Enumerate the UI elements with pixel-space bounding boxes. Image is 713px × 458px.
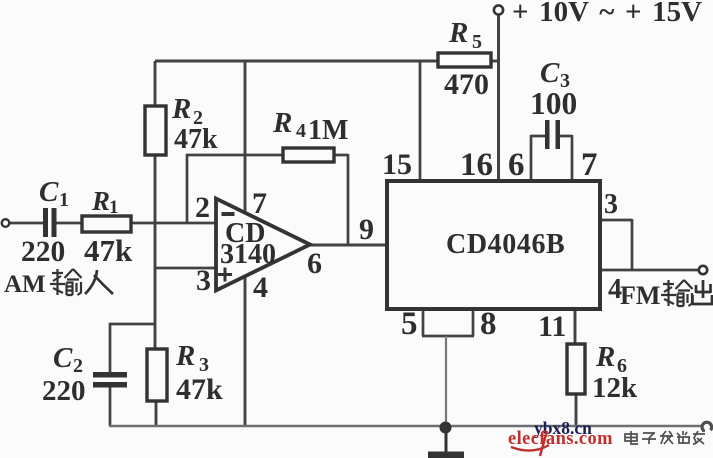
label AM input <box>4 271 46 298</box>
label R2 <box>171 93 203 129</box>
input terminal <box>2 219 10 227</box>
svg-text:7: 7 <box>252 187 267 220</box>
svg-text:2: 2 <box>195 191 210 224</box>
svg-text:R: R <box>448 17 468 49</box>
resistor R6 <box>567 344 585 394</box>
glyph ru of AM input <box>85 270 113 294</box>
pin 16 label <box>460 147 493 183</box>
label R1 <box>91 186 119 218</box>
wire R5 right lead <box>492 60 499 63</box>
wire op-amp pin7 stem <box>244 61 247 216</box>
wire pin5-pin8 bar <box>422 335 474 338</box>
wire R4 left drop to pin2 <box>186 154 189 223</box>
wire pin8 stub <box>472 309 475 336</box>
capacitor C1 <box>43 208 57 237</box>
watermark ybx8.cn <box>534 418 592 438</box>
op-amp U1 CD3140 <box>216 199 310 291</box>
svg-text:C: C <box>540 57 560 89</box>
label R4 <box>272 107 306 142</box>
wire pin15 drop <box>419 61 422 180</box>
svg-text:elecfans.com: elecfans.com <box>508 429 613 449</box>
wire R4 left lead <box>186 154 282 157</box>
svg-text:AM: AM <box>4 271 46 298</box>
svg-text:C: C <box>39 176 59 208</box>
svg-text:3140: 3140 <box>220 239 276 270</box>
svg-text:47k: 47k <box>174 124 218 155</box>
pin 6 label IC <box>508 147 525 183</box>
IC U2 name <box>446 229 565 260</box>
op-amp label CD <box>225 218 265 249</box>
pin 9 label <box>359 213 374 246</box>
wire C3 right lead <box>560 135 572 180</box>
svg-text:15: 15 <box>382 148 412 181</box>
resistor R5 <box>438 53 491 67</box>
label C3 <box>540 57 570 92</box>
wire R1 to op-amp pin2 <box>131 222 217 225</box>
wire top rail V+ <box>155 60 437 63</box>
glyph chu of FM output <box>693 280 713 305</box>
value R3 47k <box>176 373 223 406</box>
op-amp minus sign <box>222 212 235 216</box>
svg-text:47k: 47k <box>176 373 223 406</box>
pin 3 label op-amp <box>196 264 211 297</box>
wire C3 left lead <box>531 135 545 180</box>
wire R4 right drop to output <box>347 154 350 245</box>
resistor R3 <box>147 349 167 401</box>
wire R2 top stem <box>154 61 157 106</box>
svg-text:1: 1 <box>59 189 69 211</box>
capacitor C2 <box>93 372 127 388</box>
glyph shu of FM output <box>661 280 693 306</box>
pin 15 label <box>382 148 412 181</box>
pin 4 label IC <box>608 274 622 305</box>
wire R6 bottom stem <box>575 394 578 426</box>
svg-text:6: 6 <box>307 247 322 280</box>
wire C1 to R1 <box>56 222 82 225</box>
power terminal <box>494 5 503 14</box>
pin 7 label IC <box>581 147 598 183</box>
svg-text:5: 5 <box>472 31 482 53</box>
wire pin3 of op-amp <box>154 267 217 270</box>
wire power stem <box>497 14 500 180</box>
svg-text:6: 6 <box>508 147 525 183</box>
pin 2 label op-amp <box>195 191 210 224</box>
wire C2 top lead <box>109 323 112 373</box>
value R1 47k <box>84 233 133 268</box>
pin 3 label IC <box>604 189 618 220</box>
svg-text:FM: FM <box>620 281 660 310</box>
wire op-amp output to pin9 <box>309 244 386 247</box>
svg-text:2: 2 <box>73 355 83 377</box>
svg-text:3: 3 <box>604 189 618 220</box>
pin 6 label op-amp <box>307 247 322 280</box>
wire pin5/8 stem to ground <box>445 336 447 426</box>
resistor R1 <box>82 216 131 232</box>
junction ground node <box>440 422 452 434</box>
svg-text:R: R <box>175 340 195 372</box>
wire R4 right lead <box>335 154 348 157</box>
pin 5 label <box>401 306 418 342</box>
value C3 100 <box>530 86 577 121</box>
svg-text:7: 7 <box>581 147 598 183</box>
svg-text:R: R <box>171 93 191 125</box>
svg-text:3: 3 <box>196 264 211 297</box>
value R6 12k <box>592 372 638 404</box>
resistor R4 <box>283 148 334 162</box>
wire pin11 stem <box>574 309 577 344</box>
wire C2 branch horizontal <box>109 323 156 326</box>
svg-text:12k: 12k <box>592 372 638 404</box>
svg-text:1: 1 <box>109 197 119 218</box>
svg-text:100: 100 <box>530 86 577 121</box>
svg-text:R: R <box>272 107 292 139</box>
glyph shu of AM input <box>50 269 82 295</box>
wire chip pin3 loop <box>600 219 632 270</box>
svg-text:C: C <box>53 342 73 374</box>
value C2 220 <box>42 375 86 407</box>
wire R2 bottom to R3 top <box>154 155 157 349</box>
value C1 220 <box>21 236 65 268</box>
ground <box>428 430 464 458</box>
svg-text:47k: 47k <box>84 233 133 268</box>
wire FM output line <box>600 269 699 272</box>
svg-text:CD4046B: CD4046B <box>446 229 565 260</box>
value R4 1M <box>308 115 348 146</box>
wire ground rail <box>109 425 702 427</box>
svg-text:5: 5 <box>401 306 418 342</box>
pin 7 label op-amp <box>252 187 267 220</box>
op-amp plus sign <box>218 268 232 282</box>
svg-text:9: 9 <box>359 213 374 246</box>
op-amp label 3140 <box>220 239 276 270</box>
IC U2 CD4046B box <box>387 181 600 309</box>
FM output terminal <box>699 266 707 274</box>
svg-text:4: 4 <box>296 120 306 142</box>
svg-text:R: R <box>91 186 110 216</box>
value R2 47k <box>174 124 218 155</box>
label C1 <box>39 176 69 211</box>
watermark red swash <box>511 431 549 456</box>
svg-text:R: R <box>595 341 615 373</box>
resistor R2 <box>145 106 166 155</box>
value R5 470 <box>444 68 489 101</box>
label R6 <box>595 341 627 377</box>
label power rail +10V ~ +15V <box>512 0 702 28</box>
label C2 <box>53 342 83 377</box>
svg-text:1M: 1M <box>308 115 348 146</box>
pin 8 label <box>480 306 497 342</box>
svg-text:16: 16 <box>460 147 493 183</box>
svg-text:11: 11 <box>538 310 566 343</box>
svg-text:8: 8 <box>480 306 497 342</box>
wire R3 bottom stem <box>155 401 158 426</box>
wire op-amp pin4 stem to ground rail <box>244 272 247 426</box>
svg-text:+ 10V ~ + 15V: + 10V ~ + 15V <box>512 0 702 28</box>
svg-text:220: 220 <box>42 375 86 407</box>
pin 4 label op-amp <box>253 271 268 304</box>
label R3 <box>175 340 209 376</box>
watermark elecfans.com <box>508 429 613 449</box>
pin 11 label <box>538 310 566 343</box>
wire input to C1 <box>9 222 44 225</box>
wire pin5 stub <box>422 309 425 336</box>
watermark swirl logo <box>702 422 712 432</box>
svg-text:4: 4 <box>253 271 268 304</box>
svg-text:220: 220 <box>21 236 65 268</box>
wire C2 bottom lead <box>109 387 112 426</box>
svg-text:470: 470 <box>444 68 489 101</box>
watermark chinese dianzifashaoyou <box>625 431 705 444</box>
capacitor C3 <box>545 120 560 149</box>
label R5 <box>448 17 482 53</box>
label FM output <box>620 281 660 310</box>
